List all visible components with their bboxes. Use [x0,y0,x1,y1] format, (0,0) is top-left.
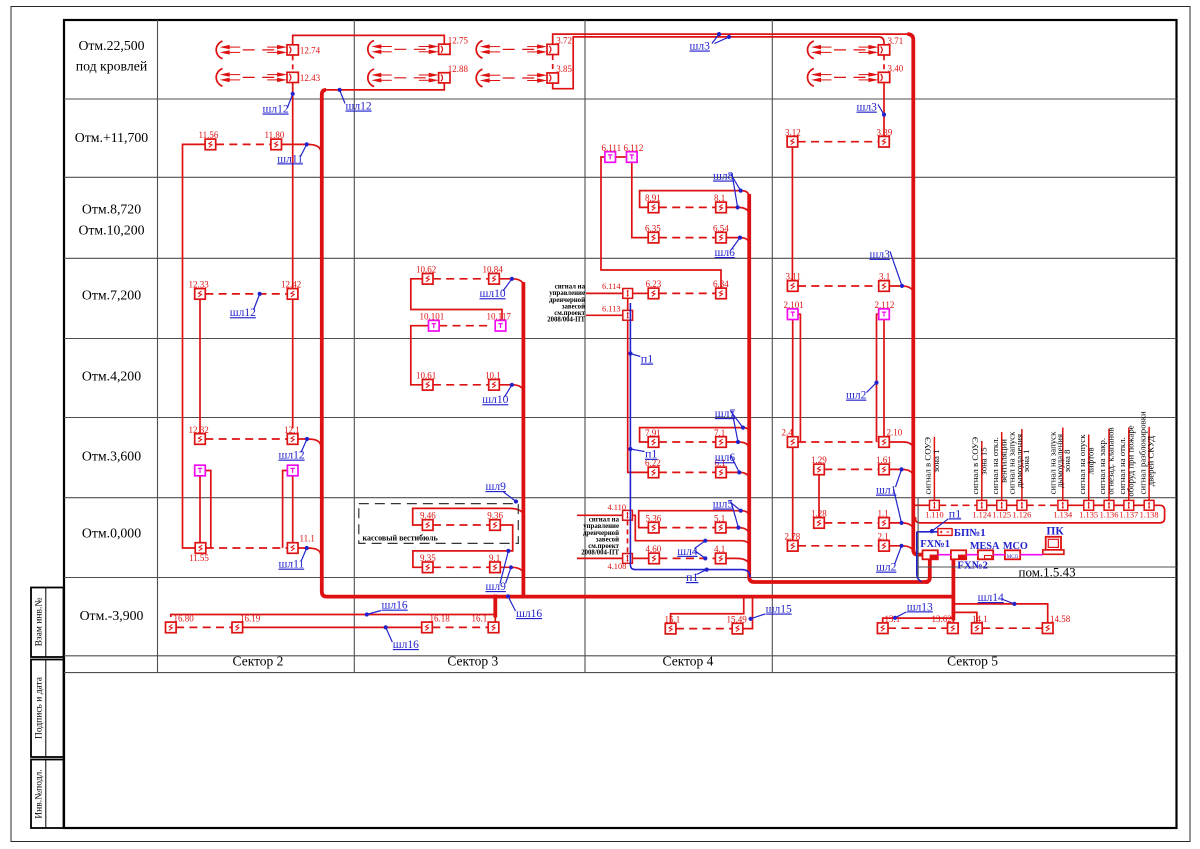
node шл14 [978,592,1017,606]
beam detector 3.71 [808,36,904,59]
svg-text:шл12: шл12 [263,104,289,116]
svg-text:1.135: 1.135 [1079,511,1098,520]
wire dashed 14.1-14.58 [982,627,1042,629]
node шл16 b [384,625,420,651]
wire trunk sector3 (trunk) [522,282,526,596]
wire link 6.111-6.112 [616,156,627,158]
node drencher text 2 [581,517,619,557]
wire шл12: 12.74 top bus to 12.75 [293,35,445,44]
svg-text:FX№2: FX№2 [957,559,988,571]
wire feed 14.1 [953,612,977,623]
svg-text:зона 1: зона 1 [931,449,941,472]
manual call point 2.112 [875,300,895,320]
detector 6.35 [645,223,661,243]
wire 3.12 down to 3.11 [791,147,793,281]
detector 2.78 [785,532,801,552]
wire dashed 3.11-3.1 [798,285,879,287]
detector 1.28 [811,509,827,529]
wire шл3 line B: 3.85 loop to 3.71 [553,37,884,89]
svg-text:8.1: 8.1 [714,193,725,203]
svg-text:п1: п1 [686,570,698,584]
svg-text:Отм.0,000: Отм.0,000 [82,526,141,541]
wire 12.1 to trunk [298,439,321,447]
detector 9.46 [420,511,436,531]
svg-text:16.80: 16.80 [174,614,195,624]
svg-text:1.124: 1.124 [972,511,992,520]
wire 6.111 down to 6.34 [601,157,721,288]
detector 14.1 [972,614,988,634]
detector 9.1 [489,553,500,573]
svg-text:3.40: 3.40 [888,64,904,74]
wire dashed 5.36-5.1 [659,527,715,529]
svg-text:1.134: 1.134 [1053,511,1073,520]
detector 3.11 [786,272,801,292]
panel FX№1 [920,539,950,559]
svg-text:шл5: шл5 [713,499,734,511]
detector 16.1 [472,614,499,633]
node шл11 top [277,142,309,165]
detector 11.56 [199,130,219,150]
wire 10.1 to trunk3 [499,385,523,393]
detector 12.33 [189,280,210,300]
wire modules bus [939,504,1144,506]
wire dashed 8.91-8.1 [659,206,716,208]
svg-text:шл13: шл13 [907,601,933,613]
wire T1 right to loop11 [205,471,211,548]
device МСО [1003,541,1028,560]
wire 1.1 to trunk5 [889,523,913,531]
svg-text:Отм.8,720: Отм.8,720 [82,202,141,217]
wire 1.61 to trunk5 [889,469,913,477]
detector 11.55 [189,543,209,563]
svg-text:14.1: 14.1 [972,614,988,624]
svg-text:13.62: 13.62 [932,614,952,624]
wire dashed 10.62-10.84 [433,278,489,280]
svg-text:6.34: 6.34 [713,279,729,289]
svg-text:Взам инв.№: Взам инв.№ [35,598,45,647]
wire dashed 6.22-6.1 [659,471,716,473]
node шл10 a [480,277,515,301]
node шл4 [677,539,707,561]
svg-text:шл9: шл9 [486,581,507,593]
svg-text:1.136: 1.136 [1100,511,1119,520]
svg-text:3.1: 3.1 [879,272,890,282]
manual call point [195,465,206,476]
detector 4.60 [646,544,662,563]
svg-text:12.88: 12.88 [448,64,469,74]
wire stub shl16 (trunk) [493,595,497,618]
svg-text:9.46: 9.46 [420,511,436,521]
detector 6.22 [645,458,661,478]
node шл12 low [279,437,310,462]
wire dashed 10.101-10.117 [439,325,491,327]
wire 4.110 loop bottom to trunk4 [632,515,749,548]
wire riser FX1 to bus1 (trunk) [925,559,930,582]
svg-text:10.1: 10.1 [485,371,501,381]
wire 9.36 chain to 9.35 [413,525,513,567]
node шл9 top [486,481,519,504]
wire 9.46 loop top to trunk3 [413,508,524,525]
wire dashed 12.74-12.43 [292,55,294,71]
wire п1 blue riser to БП [917,532,922,582]
wire 10.62 loop to 10.117 [411,279,502,321]
module 1.125 [992,500,1011,519]
svg-text:1.125: 1.125 [992,511,1011,520]
detector 7.1 [714,428,726,448]
svg-text:12.33: 12.33 [189,280,210,290]
svg-text:шл14: шл14 [978,592,1004,604]
svg-text:9.1: 9.1 [489,553,500,563]
svg-text:шл2: шл2 [846,390,867,402]
node шл2 low [876,544,904,574]
wire dashed 6.35-6.54 [659,237,716,239]
wire шл3 line A [553,34,908,44]
module 6.114 [602,282,633,298]
svg-text:12.75: 12.75 [448,36,469,46]
module 1.134 [1053,500,1073,519]
detector 6.23 [646,279,662,299]
wire dashed 3.12-3.39 [798,141,879,143]
svg-text:6.111: 6.111 [602,143,622,153]
wire шл15 stub to 15.49 [743,598,753,629]
svg-text:16.18: 16.18 [430,614,451,624]
svg-text:10.61: 10.61 [416,371,436,381]
svg-text:4.108: 4.108 [608,562,627,571]
wire 2.112 down to 2.10 [883,320,885,437]
detector 1.1 [878,509,890,529]
svg-text:п1: п1 [949,506,961,520]
wire drencher signal wire to 6.114 [586,292,623,294]
svg-text:3.71: 3.71 [888,36,904,46]
wire 2.101 right branch [798,314,800,442]
svg-text:огнезад. клапанов: огнезад. клапанов [1106,427,1116,494]
svg-text:3.85: 3.85 [556,64,572,74]
svg-text:Инв.№подл.: Инв.№подл. [35,769,45,818]
svg-text:шл10: шл10 [480,288,506,300]
svg-text:2.78: 2.78 [785,532,801,542]
module 1.136 [1100,500,1119,519]
manual call point 10.101 [420,312,445,332]
detector 2.4 [782,428,799,448]
detector 3.39 [877,127,893,147]
svg-text:шл11: шл11 [277,153,303,165]
wire 2.112 left branch [877,314,879,442]
svg-text:16.1: 16.1 [472,614,488,624]
detector 13.62 [932,614,959,634]
svg-text:3.12: 3.12 [785,127,801,137]
svg-text:9.35: 9.35 [420,553,436,563]
node elevation labels [75,38,148,623]
wire 9.1 to trunk3 [500,567,523,575]
module 1.135 [1079,500,1098,519]
svg-text:15.49: 15.49 [727,614,748,624]
detector 7.91 [645,428,661,448]
module 4.110 [608,503,633,520]
node шл15 [749,604,792,621]
svg-text:шл16: шл16 [393,639,419,651]
wire dashed 3.71-3.40 [883,55,885,72]
svg-text:дверей СКУД: дверей СКУД [1146,436,1156,487]
svg-text:6.23: 6.23 [646,279,662,289]
svg-text:Отм.22,500: Отм.22,500 [78,38,144,53]
svg-text:1.1: 1.1 [878,509,889,519]
detector 8.91 [645,193,661,213]
wire 3.40 down to 3.39 [883,83,885,136]
detector 2.10 [879,428,903,448]
svg-text:1.138: 1.138 [1140,511,1159,520]
svg-text:Сектор 4: Сектор 4 [663,654,714,669]
wire riser FX2 down (trunk) [952,559,956,620]
detector 9.36 [487,511,503,531]
svg-text:МСО: МСО [1007,555,1019,560]
svg-text:12.1: 12.1 [284,425,300,435]
wire link 4.108-4.60 [632,557,648,559]
node шл8 [713,171,743,210]
beam detector 3.40 [808,64,904,87]
wire 6.112 down to 6.35 [632,162,648,237]
module 6.113 [602,305,633,321]
svg-text:п1: п1 [641,352,653,366]
detector 4.1 [714,544,726,563]
svg-text:2008/004-ПТ: 2008/004-ПТ [547,317,585,324]
panel FX№2 [951,550,988,571]
svg-text:шл8: шл8 [713,171,734,183]
detector 14.58 [1042,614,1070,634]
title block strip: Подпись и дата [31,660,64,758]
svg-text:п1: п1 [645,447,657,461]
svg-text:12.74: 12.74 [300,45,321,55]
svg-text:ПК: ПК [1046,525,1064,537]
svg-text:Подпись и дата: Подпись и дата [35,676,45,739]
wire 8.91 loop top to trunk4 [640,191,750,208]
svg-text:1.61: 1.61 [876,455,892,465]
svg-text:6.114: 6.114 [602,282,621,291]
wire dashed 16.18-16.1 [432,626,488,628]
beam detector 3.72 [476,36,572,59]
wire dashed 6.23-6.34 [659,292,716,294]
svg-text:6.113: 6.113 [602,305,621,314]
svg-text:Отм.+11,700: Отм.+11,700 [75,130,148,145]
node шл3 s5top [857,102,887,117]
wire dashed 15.1-15.49 [676,628,732,630]
svg-text:Сектор 2: Сектор 2 [233,654,284,669]
svg-text:Отм.3,600: Отм.3,600 [82,449,141,464]
svg-text:11.1: 11.1 [300,534,315,544]
node шл16 c [506,594,542,620]
wire 2.10 to trunk5 [889,442,913,450]
svg-text:2.10: 2.10 [887,428,903,438]
svg-text:1.126: 1.126 [1012,511,1031,520]
svg-text:10.101: 10.101 [420,312,445,322]
svg-text:7.91: 7.91 [645,428,661,438]
svg-text:10.84: 10.84 [483,265,504,275]
manual call point 6.111 [602,143,622,163]
svg-text:шл12: шл12 [230,307,256,319]
detector 11.1 [287,534,315,554]
svg-text:2.112: 2.112 [875,300,895,310]
svg-text:Сектор 3: Сектор 3 [447,654,498,669]
detector 6.34 [713,279,729,299]
node шл12 mid [230,292,262,319]
beam detector 12.74 [216,41,320,59]
node шл9 low [486,549,514,593]
detector 15.49 [727,614,748,633]
wire dashed 4.110-4.108 [627,520,629,553]
svg-text:12.42: 12.42 [281,280,301,290]
wire dashed 2.78-2.1 [798,545,879,547]
svg-text:10.117: 10.117 [487,312,512,322]
wire feed 13.62 [952,619,954,623]
node шл16 a [365,600,408,617]
wire 5.1 to trunk4 [726,528,749,536]
wire trunk sector2 + bottom bus 2 (trunk) [322,90,952,597]
detector 15.1 [665,614,681,633]
detector 3.1 [879,272,891,292]
wire link 6.114-6.23 [633,292,649,294]
detector 2.1 [878,532,890,552]
wire шл13 line to 13.1 [883,618,954,622]
svg-text:шл12: шл12 [346,101,372,113]
wire шл15 stub to 15.1 [671,598,744,622]
svg-text:12.43: 12.43 [300,73,321,83]
svg-text:Отм.10,200: Отм.10,200 [78,223,144,238]
node room пом.1.5.43 boundary [918,498,1176,578]
wire dashed 3.72-3.85 [552,55,554,72]
svg-text:FX№1: FX№1 [920,539,950,550]
wire trunk sector4 + bottom bus 1 (trunk) [749,194,928,582]
wire dashed 11.56-11.80 [216,143,270,145]
wire riser 12.33 to 12.32 [199,299,201,433]
wire 7.91 loop top to trunk4 [640,428,750,442]
detector 1.61 [876,455,892,475]
svg-text:Сектор 5: Сектор 5 [947,654,998,669]
detector 6.54 [713,223,729,243]
wire T2 left to loop11 [283,471,288,548]
manual call point [287,465,298,476]
wire dashed 11.55-11.1 [206,547,287,549]
wire 16.1 feed [494,615,496,623]
svg-text:зона 15: зона 15 [978,447,988,475]
wire dashed 12.32-12.1 [205,438,287,440]
wire dashed 13.1-13.62 [888,627,948,629]
node шл6 b [715,452,742,474]
wire riser 12.43 down to 12.42 [292,83,294,428]
wire 11.1 to trunk [298,548,321,556]
svg-text:8.91: 8.91 [645,193,661,203]
computer ПК [1043,525,1065,554]
detector 5.36 [646,513,662,532]
detector 12.1 [284,425,300,445]
svg-text:10.62: 10.62 [416,265,436,275]
table grid lines [64,20,1177,673]
node шл12 top [263,92,295,116]
svg-text:шл2: шл2 [876,562,897,574]
node кассовый вестибюль area [359,504,519,544]
wire solid 16.19-16.18 [243,626,422,628]
detector 12.32 [189,425,209,445]
node drencher text 1 [547,284,585,324]
svg-text:2.4: 2.4 [782,428,794,438]
beam detector 12.43 [216,69,320,87]
detector 10.62 [416,265,436,285]
svg-text:3.72: 3.72 [556,36,572,46]
module 1.138 [1140,500,1159,519]
svg-text:4.1: 4.1 [714,544,725,554]
wire dashed 4.60-4.1 [659,557,715,559]
detector 13.1 [877,614,900,634]
node п1 a [628,351,653,365]
manual call point 10.117 [487,312,512,332]
wire drencher signal wire to 4.108 [577,557,623,559]
node шл6 a [715,236,743,260]
svg-text:12.32: 12.32 [189,425,209,435]
wire 11.80 to trunk [282,144,321,152]
wire 5.36 loop top to trunk4 [639,511,750,528]
svg-text:лифтов: лифтов [1085,447,1095,474]
svg-text:БП№1: БП№1 [954,527,986,539]
svg-text:11.80: 11.80 [265,130,285,140]
wire drencher signal wire to 6.113 [586,314,623,316]
module 1.126 [1012,500,1031,519]
wire 2.1 to trunk5 [889,546,913,553]
wire п1 blue line sector4 [630,303,750,578]
wire 1.29 down to 1.28 [818,475,820,518]
wire dashed 9.46-9.36 [433,524,490,526]
detector 8.1 [714,193,726,213]
wire шл16 upper line [171,615,496,618]
wire dashed 16.80-16.19 [176,626,232,628]
wire return 12.88 to trunk2 [325,83,444,90]
svg-text:13.1: 13.1 [885,614,901,624]
node шл11 low [279,546,309,571]
wire T2 down to 11.1 [292,476,294,543]
wire dashed 1.29-1.61 [824,468,878,470]
wire modules return line [916,505,1165,523]
detector 12.42 [281,280,301,300]
manual call point 6.112 [624,143,644,163]
detector 5.1 [714,513,726,532]
svg-text:шл11: шл11 [279,559,305,571]
svg-text:16.19: 16.19 [240,614,261,624]
module 1.137 [1119,500,1138,519]
node п1 b [628,447,657,461]
detector 11.80 [265,130,285,150]
wire 6.1 to trunk4 [726,472,749,480]
node sector labels [233,654,999,669]
wire 6.113 down to 6.22 [628,320,649,472]
detector 9.35 [420,553,436,573]
svg-text:зона 1: зона 1 [1021,449,1031,472]
detector 10.1 [485,371,501,391]
power supply БП№1 [938,527,986,539]
detector 10.61 [416,371,436,391]
svg-text:шл9: шл9 [486,481,507,493]
node шл3 top [690,32,732,53]
svg-text:под кровлей: под кровлей [76,59,148,74]
svg-text:шл3: шл3 [690,41,711,53]
svg-text:оборуд при пожаре: оборуд при пожаре [1125,425,1135,496]
node шл2 mid [846,381,879,402]
wire 2.4 down to 2.78 [792,447,794,540]
node rotated signal labels [923,411,1156,497]
svg-text:3.39: 3.39 [877,127,893,137]
svg-text:2008/004-ПТ: 2008/004-ПТ [581,550,619,557]
svg-text:кассовый вестибюль: кассовый вестибюль [363,533,439,542]
wire п1 blue link to БП№1 [917,531,938,533]
beam detector 12.88 [368,64,469,87]
svg-text:6.112: 6.112 [624,143,644,153]
svg-text:14.58: 14.58 [1050,614,1071,624]
